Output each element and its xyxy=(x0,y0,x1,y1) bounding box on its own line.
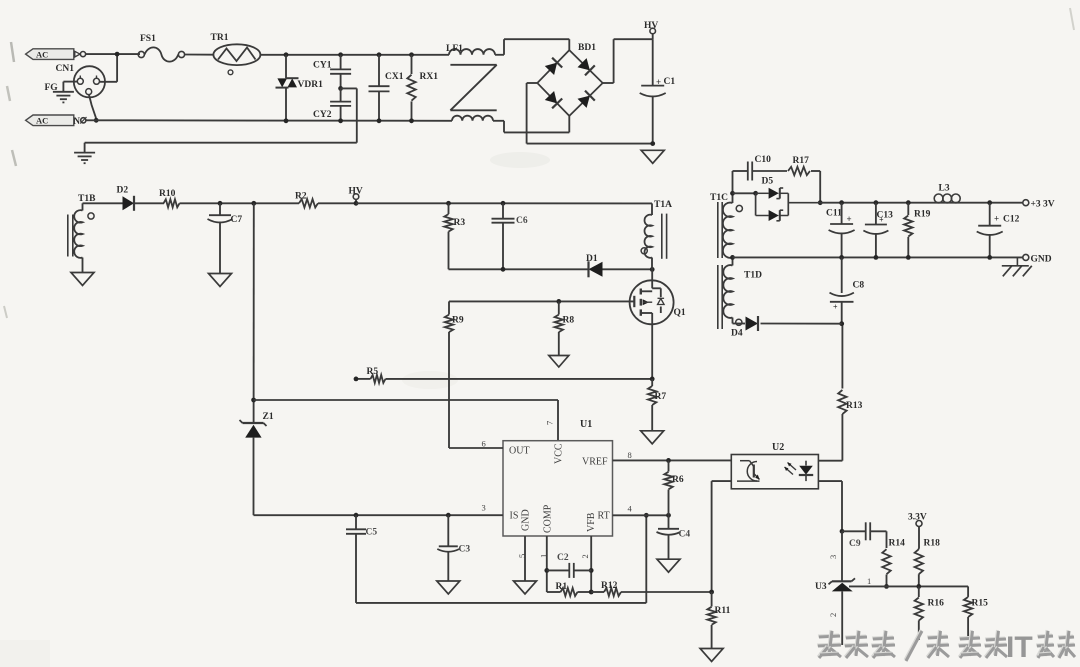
wire LF1 bottom to bridge xyxy=(493,116,569,132)
svg-text:VFB: VFB xyxy=(586,512,597,532)
svg-text:R3: R3 xyxy=(454,218,466,228)
junction CX1 bottom xyxy=(377,118,382,123)
svg-text:U1: U1 xyxy=(580,419,592,430)
junction R6 top xyxy=(666,458,671,463)
svg-text:C10: C10 xyxy=(755,155,772,165)
pin number 5 xyxy=(517,554,527,558)
resistor R11 xyxy=(707,592,715,649)
svg-text:VDR1: VDR1 xyxy=(298,80,324,90)
pin number 8 xyxy=(628,450,632,460)
junction R5 left xyxy=(354,377,359,382)
pin number 1 comp xyxy=(539,554,549,558)
node GND output xyxy=(1023,254,1029,260)
svg-text:3: 3 xyxy=(828,555,838,559)
svg-text:+: + xyxy=(879,216,884,225)
label D2 xyxy=(117,186,129,196)
phase dot T1C xyxy=(736,205,742,211)
junction C9 node xyxy=(840,529,845,534)
svg-text:CY2: CY2 xyxy=(313,110,332,120)
junction C12 bottom xyxy=(987,255,992,260)
capacitor C4 xyxy=(657,515,681,559)
capacitor C5 xyxy=(346,515,366,603)
pin IS text xyxy=(510,511,519,522)
wire opto anode to R13 xyxy=(818,416,842,461)
wire bridge minus rail xyxy=(527,83,653,144)
capacitor C13 xyxy=(863,203,888,258)
svg-text:D4: D4 xyxy=(731,329,743,339)
capacitor C7 xyxy=(208,203,233,273)
svg-text:+: + xyxy=(847,214,852,224)
choke LF1 bottom winding xyxy=(452,116,493,121)
wire opto cathode down xyxy=(818,481,842,531)
label T1B xyxy=(78,194,96,204)
optocoupler U2 box xyxy=(731,455,818,489)
junction RX1 bottom xyxy=(409,118,414,123)
label C3 xyxy=(459,545,471,555)
capacitor C8 xyxy=(830,257,854,323)
svg-text:VCC: VCC xyxy=(554,443,565,464)
junction C11 top xyxy=(839,200,844,205)
wire pin4 line xyxy=(613,514,669,516)
label C8 xyxy=(833,281,864,312)
svg-text:C12: C12 xyxy=(1003,215,1020,225)
svg-text:C4: C4 xyxy=(679,530,691,540)
wire opto emitter to R11 xyxy=(712,481,731,592)
diode D2 xyxy=(123,196,135,211)
svg-text:HV: HV xyxy=(644,21,658,31)
label C11 xyxy=(826,209,852,225)
wire GND rail xyxy=(733,256,1023,258)
svg-text:HV: HV xyxy=(349,187,363,197)
svg-text:C8: C8 xyxy=(853,281,865,291)
svg-text:R5: R5 xyxy=(367,367,379,377)
choke LF1 top winding xyxy=(449,49,495,55)
capacitor C6 xyxy=(492,203,515,269)
junction R11 top xyxy=(709,590,714,595)
resistor R15 xyxy=(964,596,972,639)
svg-text:AC: AC xyxy=(36,116,48,126)
svg-text:D5: D5 xyxy=(762,177,774,187)
earth ground mains xyxy=(74,153,95,164)
capacitor C2 xyxy=(547,563,591,578)
label +3.3V xyxy=(1031,200,1055,210)
phase dot T1D xyxy=(736,319,742,325)
wire VCC column xyxy=(253,203,255,422)
svg-text:Z1: Z1 xyxy=(263,412,274,422)
svg-text:AC: AC xyxy=(36,49,48,59)
label T1A xyxy=(654,200,672,210)
pin 3 U3 xyxy=(828,555,838,559)
wire fuse-TR1 xyxy=(185,54,214,56)
resistor R10 xyxy=(164,199,180,207)
junction pin4 line left xyxy=(644,513,649,518)
label FG xyxy=(45,83,59,93)
junction R19 bottom xyxy=(906,255,911,260)
svg-text:R6: R6 xyxy=(672,475,684,485)
wire GND pin xyxy=(524,536,526,581)
label C10 xyxy=(755,155,772,165)
varistor VDR1 xyxy=(276,55,299,121)
junction CY mid xyxy=(338,86,343,91)
label C1 xyxy=(656,77,675,87)
junction CY2 bottom xyxy=(338,118,343,123)
svg-text:CX1: CX1 xyxy=(385,72,404,82)
bridge diode bottom-right xyxy=(578,91,595,108)
svg-text:RX1: RX1 xyxy=(420,72,439,82)
ground R11 xyxy=(700,649,723,662)
junction C7 top xyxy=(218,201,223,206)
svg-text:R1: R1 xyxy=(556,582,568,592)
svg-text:IT: IT xyxy=(1006,631,1033,664)
label HV pwm xyxy=(349,187,363,197)
label C5 xyxy=(366,528,378,538)
capacitor C11 xyxy=(829,203,855,258)
label Z1 xyxy=(263,412,274,422)
svg-text:R15: R15 xyxy=(972,599,989,609)
wire D4 line xyxy=(733,323,842,325)
svg-text:R10: R10 xyxy=(159,189,176,199)
svg-text:CN1: CN1 xyxy=(56,64,75,74)
svg-text:OUT: OUT xyxy=(509,446,530,457)
junction VCC branch xyxy=(251,398,256,403)
pin number 3 xyxy=(482,503,486,513)
resistor R14 xyxy=(882,531,890,586)
svg-text:3.3V: 3.3V xyxy=(908,513,927,523)
wire HV to T1A (top rail) xyxy=(356,202,652,204)
svg-text:R17: R17 xyxy=(793,156,810,166)
resistor R2 xyxy=(299,199,318,207)
junction RX1 top xyxy=(409,52,414,57)
wire CN1 pin to N xyxy=(89,95,96,121)
wire VREF line xyxy=(613,459,731,461)
label TR1 xyxy=(211,33,229,43)
junction C12 top xyxy=(987,200,992,205)
junction Q1 source R5 xyxy=(650,377,655,382)
IC U1 box xyxy=(503,441,613,536)
label R13 xyxy=(846,401,863,411)
junction C3 top xyxy=(446,513,451,518)
wire TR1 to LF1 (top line) xyxy=(260,54,449,56)
node HV pwm xyxy=(353,194,359,204)
ground C1 xyxy=(641,150,664,163)
resistor R9 xyxy=(445,301,453,448)
junction R18 bottom xyxy=(916,584,921,589)
label R2 xyxy=(295,192,307,202)
svg-text:6: 6 xyxy=(482,439,486,449)
wire C5 bottom line xyxy=(356,515,646,603)
svg-text:TR1: TR1 xyxy=(211,33,229,43)
wire COMP pin xyxy=(546,536,548,592)
label CX1 xyxy=(385,72,404,82)
earth ground FG xyxy=(53,92,74,103)
junction C2 left xyxy=(544,568,549,573)
label R12 xyxy=(601,581,618,591)
ground C3 xyxy=(437,581,460,594)
resistor RX1 xyxy=(407,55,415,121)
svg-text:R2: R2 xyxy=(295,192,307,202)
wire LF1 top to bridge xyxy=(495,39,569,55)
svg-text:R19: R19 xyxy=(914,210,931,220)
label D4 xyxy=(731,329,743,339)
svg-text:C9: C9 xyxy=(849,539,861,549)
label CY2 xyxy=(313,110,332,120)
transformer core T1B xyxy=(68,215,73,257)
junction R14 bottom xyxy=(884,584,889,589)
ground R8 xyxy=(549,356,569,368)
capacitor C9 xyxy=(842,522,887,540)
svg-text:+3 3V: +3 3V xyxy=(1031,200,1055,210)
transformer core T1D xyxy=(718,265,722,329)
diode D4 xyxy=(746,316,759,331)
phase dot T1A xyxy=(641,248,647,254)
label R5 xyxy=(367,367,379,377)
resistor R8 xyxy=(555,301,563,355)
svg-text:C3: C3 xyxy=(459,545,471,555)
wire CY mid to earth xyxy=(85,88,357,152)
svg-text:1: 1 xyxy=(867,576,871,586)
label L3 xyxy=(939,184,950,194)
wire C10 to R17 xyxy=(752,170,787,172)
svg-text:C6: C6 xyxy=(516,216,528,226)
pin RT text xyxy=(598,511,610,522)
svg-text:N: N xyxy=(74,116,81,126)
wire gate line xyxy=(449,300,634,302)
svg-text:T1C: T1C xyxy=(710,193,728,203)
node HV input xyxy=(650,28,656,39)
resistor R5 xyxy=(371,375,386,383)
resistor R19 xyxy=(904,203,912,258)
svg-text:3: 3 xyxy=(482,503,486,513)
pin number 7 xyxy=(545,421,555,425)
svg-text:R12: R12 xyxy=(601,581,618,591)
pin number 6 xyxy=(482,439,486,449)
bridge diode bottom-left xyxy=(545,91,562,108)
svg-text:R7: R7 xyxy=(655,392,667,402)
junction T1C top xyxy=(730,191,735,196)
wire OUT pin xyxy=(449,447,503,449)
svg-text:C2: C2 xyxy=(557,553,569,563)
label T1D xyxy=(744,271,762,281)
svg-text:IS: IS xyxy=(510,511,519,522)
junction VDR1 top xyxy=(284,52,289,57)
svg-text:R9: R9 xyxy=(452,316,464,326)
label CN1 xyxy=(56,64,75,74)
label C2 xyxy=(557,553,569,563)
svg-text:BD1: BD1 xyxy=(578,43,596,53)
label GND output xyxy=(1031,255,1052,265)
junction C1 bottom xyxy=(650,141,655,146)
svg-text:7: 7 xyxy=(545,421,555,425)
svg-text:C11: C11 xyxy=(826,209,842,219)
phase dot T1B xyxy=(88,213,94,219)
label R17 xyxy=(793,156,810,166)
pin COMP text xyxy=(543,504,554,533)
svg-text:VREF: VREF xyxy=(582,457,608,468)
junction C6 top xyxy=(501,201,506,206)
shunt regulator U3 xyxy=(829,531,856,645)
svg-text:C1: C1 xyxy=(664,77,676,87)
wire Z1 to IS line xyxy=(254,514,357,516)
wire R2 to HV node xyxy=(318,202,356,204)
pin 2 U3 xyxy=(828,613,838,617)
svg-text:D2: D2 xyxy=(117,186,129,196)
label U3 xyxy=(815,582,827,592)
junction C13 top xyxy=(874,200,879,205)
resistor R12 xyxy=(591,588,711,596)
svg-text:FS1: FS1 xyxy=(140,34,156,44)
label C12 xyxy=(994,214,1020,225)
ground R7 xyxy=(641,431,664,444)
label R9 xyxy=(452,316,464,326)
junction drain node xyxy=(650,267,655,272)
bridge diode top-left xyxy=(545,58,562,75)
label D1 xyxy=(586,254,598,264)
transformer winding T1B xyxy=(74,203,82,272)
label pin1 U3 xyxy=(867,576,871,586)
ground T1B xyxy=(71,273,94,286)
transistor Q1 xyxy=(630,269,674,324)
wire VCC branch to pin7 xyxy=(254,400,558,441)
capacitor C3 xyxy=(437,515,459,581)
label C13 xyxy=(877,211,894,225)
dual diode D5 xyxy=(756,188,821,221)
optocoupler U2 phototransistor xyxy=(737,461,760,481)
diode D1 xyxy=(589,261,603,277)
label C7 xyxy=(231,215,243,225)
label R16 xyxy=(928,599,945,609)
svg-text:U3: U3 xyxy=(815,582,827,592)
label 3.3V xyxy=(908,513,927,523)
svg-text:2: 2 xyxy=(580,554,590,558)
svg-text:2: 2 xyxy=(828,613,838,617)
capacitor C10 xyxy=(748,162,752,181)
label R3 xyxy=(454,218,466,228)
svg-text:L3: L3 xyxy=(939,184,950,194)
label R11 xyxy=(715,606,731,616)
label Q1 xyxy=(674,308,686,318)
optocoupler U2 LED xyxy=(799,461,813,481)
label BD1 xyxy=(578,43,596,53)
junction HV pwm xyxy=(354,201,359,206)
pin VREF text xyxy=(582,457,608,468)
resistor R16 xyxy=(915,586,923,640)
svg-text:T1A: T1A xyxy=(654,200,672,210)
label C6 xyxy=(516,216,528,226)
transformer winding T1D xyxy=(723,265,732,323)
junction T1C bottom xyxy=(730,255,735,260)
svg-text:C7: C7 xyxy=(231,215,243,225)
bridge BD1 outline xyxy=(537,50,602,116)
junction R8 top xyxy=(556,299,561,304)
junction IS C5 xyxy=(354,513,359,518)
junction CX1 top xyxy=(377,52,382,57)
label T1C xyxy=(710,193,728,203)
zener Z1 xyxy=(240,420,267,515)
AC line terminal N xyxy=(26,115,87,126)
label U2 xyxy=(772,442,784,453)
wire FG xyxy=(63,82,77,92)
svg-text:T1D: T1D xyxy=(744,271,762,281)
resistor R13 xyxy=(838,324,846,416)
watermark text xyxy=(817,630,1075,664)
label U1 xyxy=(580,419,592,430)
wire Q1 source xyxy=(651,324,653,379)
wire IS line xyxy=(356,514,503,516)
label LF1 xyxy=(446,44,463,54)
label R1 xyxy=(556,582,568,592)
chassis ground xyxy=(1002,257,1032,276)
svg-text:GND: GND xyxy=(521,509,532,531)
resistor R6 xyxy=(664,460,672,515)
transformer winding T1A xyxy=(645,203,652,269)
resistor R3 xyxy=(444,203,452,269)
node +3.3V output xyxy=(1023,200,1029,206)
svg-text:R13: R13 xyxy=(846,401,863,411)
junction R19 top xyxy=(906,200,911,205)
wire VFB pin xyxy=(590,536,592,592)
svg-text:8: 8 xyxy=(628,450,632,460)
junction VDR1 bottom xyxy=(284,118,289,123)
resistor R7 xyxy=(648,379,656,431)
svg-text:Q1: Q1 xyxy=(674,308,686,318)
svg-text:LF1: LF1 xyxy=(446,44,463,54)
wire D2 to R10 xyxy=(135,202,164,204)
svg-text:R16: R16 xyxy=(928,599,945,609)
ground C4 xyxy=(657,559,680,572)
label R14 xyxy=(889,539,906,549)
junction C13 bottom xyxy=(874,255,879,260)
label VDR1 xyxy=(298,80,324,90)
junction R1 R12 xyxy=(589,590,594,595)
resistor R18 xyxy=(915,548,923,586)
wire D5 anode line xyxy=(733,192,756,194)
label R15 xyxy=(972,599,989,609)
label C9 xyxy=(849,539,861,549)
junction R3 top xyxy=(446,201,451,206)
svg-text:+: + xyxy=(656,77,661,87)
junction N xyxy=(94,118,99,123)
wire C10 branch xyxy=(733,170,748,172)
optocoupler U2 light arrows xyxy=(785,463,797,475)
pin VCC text xyxy=(554,443,565,464)
wire output rail xyxy=(820,202,1023,204)
svg-text:CY1: CY1 xyxy=(313,61,332,71)
wire R17 down xyxy=(811,171,820,203)
svg-text:D1: D1 xyxy=(586,254,598,264)
pin number 2 vfb xyxy=(580,554,590,558)
junction C6 bottom xyxy=(501,267,506,272)
ground C7 xyxy=(209,274,232,287)
label C4 xyxy=(679,530,691,540)
junction VCC column top xyxy=(251,201,256,206)
label RX1 xyxy=(420,72,439,82)
svg-text:+: + xyxy=(833,303,838,312)
capacitor CX1 xyxy=(369,55,390,121)
label R19 xyxy=(914,210,931,220)
wire L input xyxy=(86,54,140,82)
svg-text:GND: GND xyxy=(1031,255,1052,265)
label FS1 xyxy=(140,34,156,44)
capacitor C1 xyxy=(640,39,666,143)
svg-text:R11: R11 xyxy=(715,606,731,616)
bridge diode top-right xyxy=(578,58,595,75)
connector CN1 xyxy=(74,66,105,97)
pin OUT text xyxy=(509,446,530,457)
wire snubber bottom xyxy=(449,268,589,270)
svg-text:+: + xyxy=(994,214,999,224)
wire D1 to drain xyxy=(603,268,653,270)
label R6 xyxy=(672,475,684,485)
